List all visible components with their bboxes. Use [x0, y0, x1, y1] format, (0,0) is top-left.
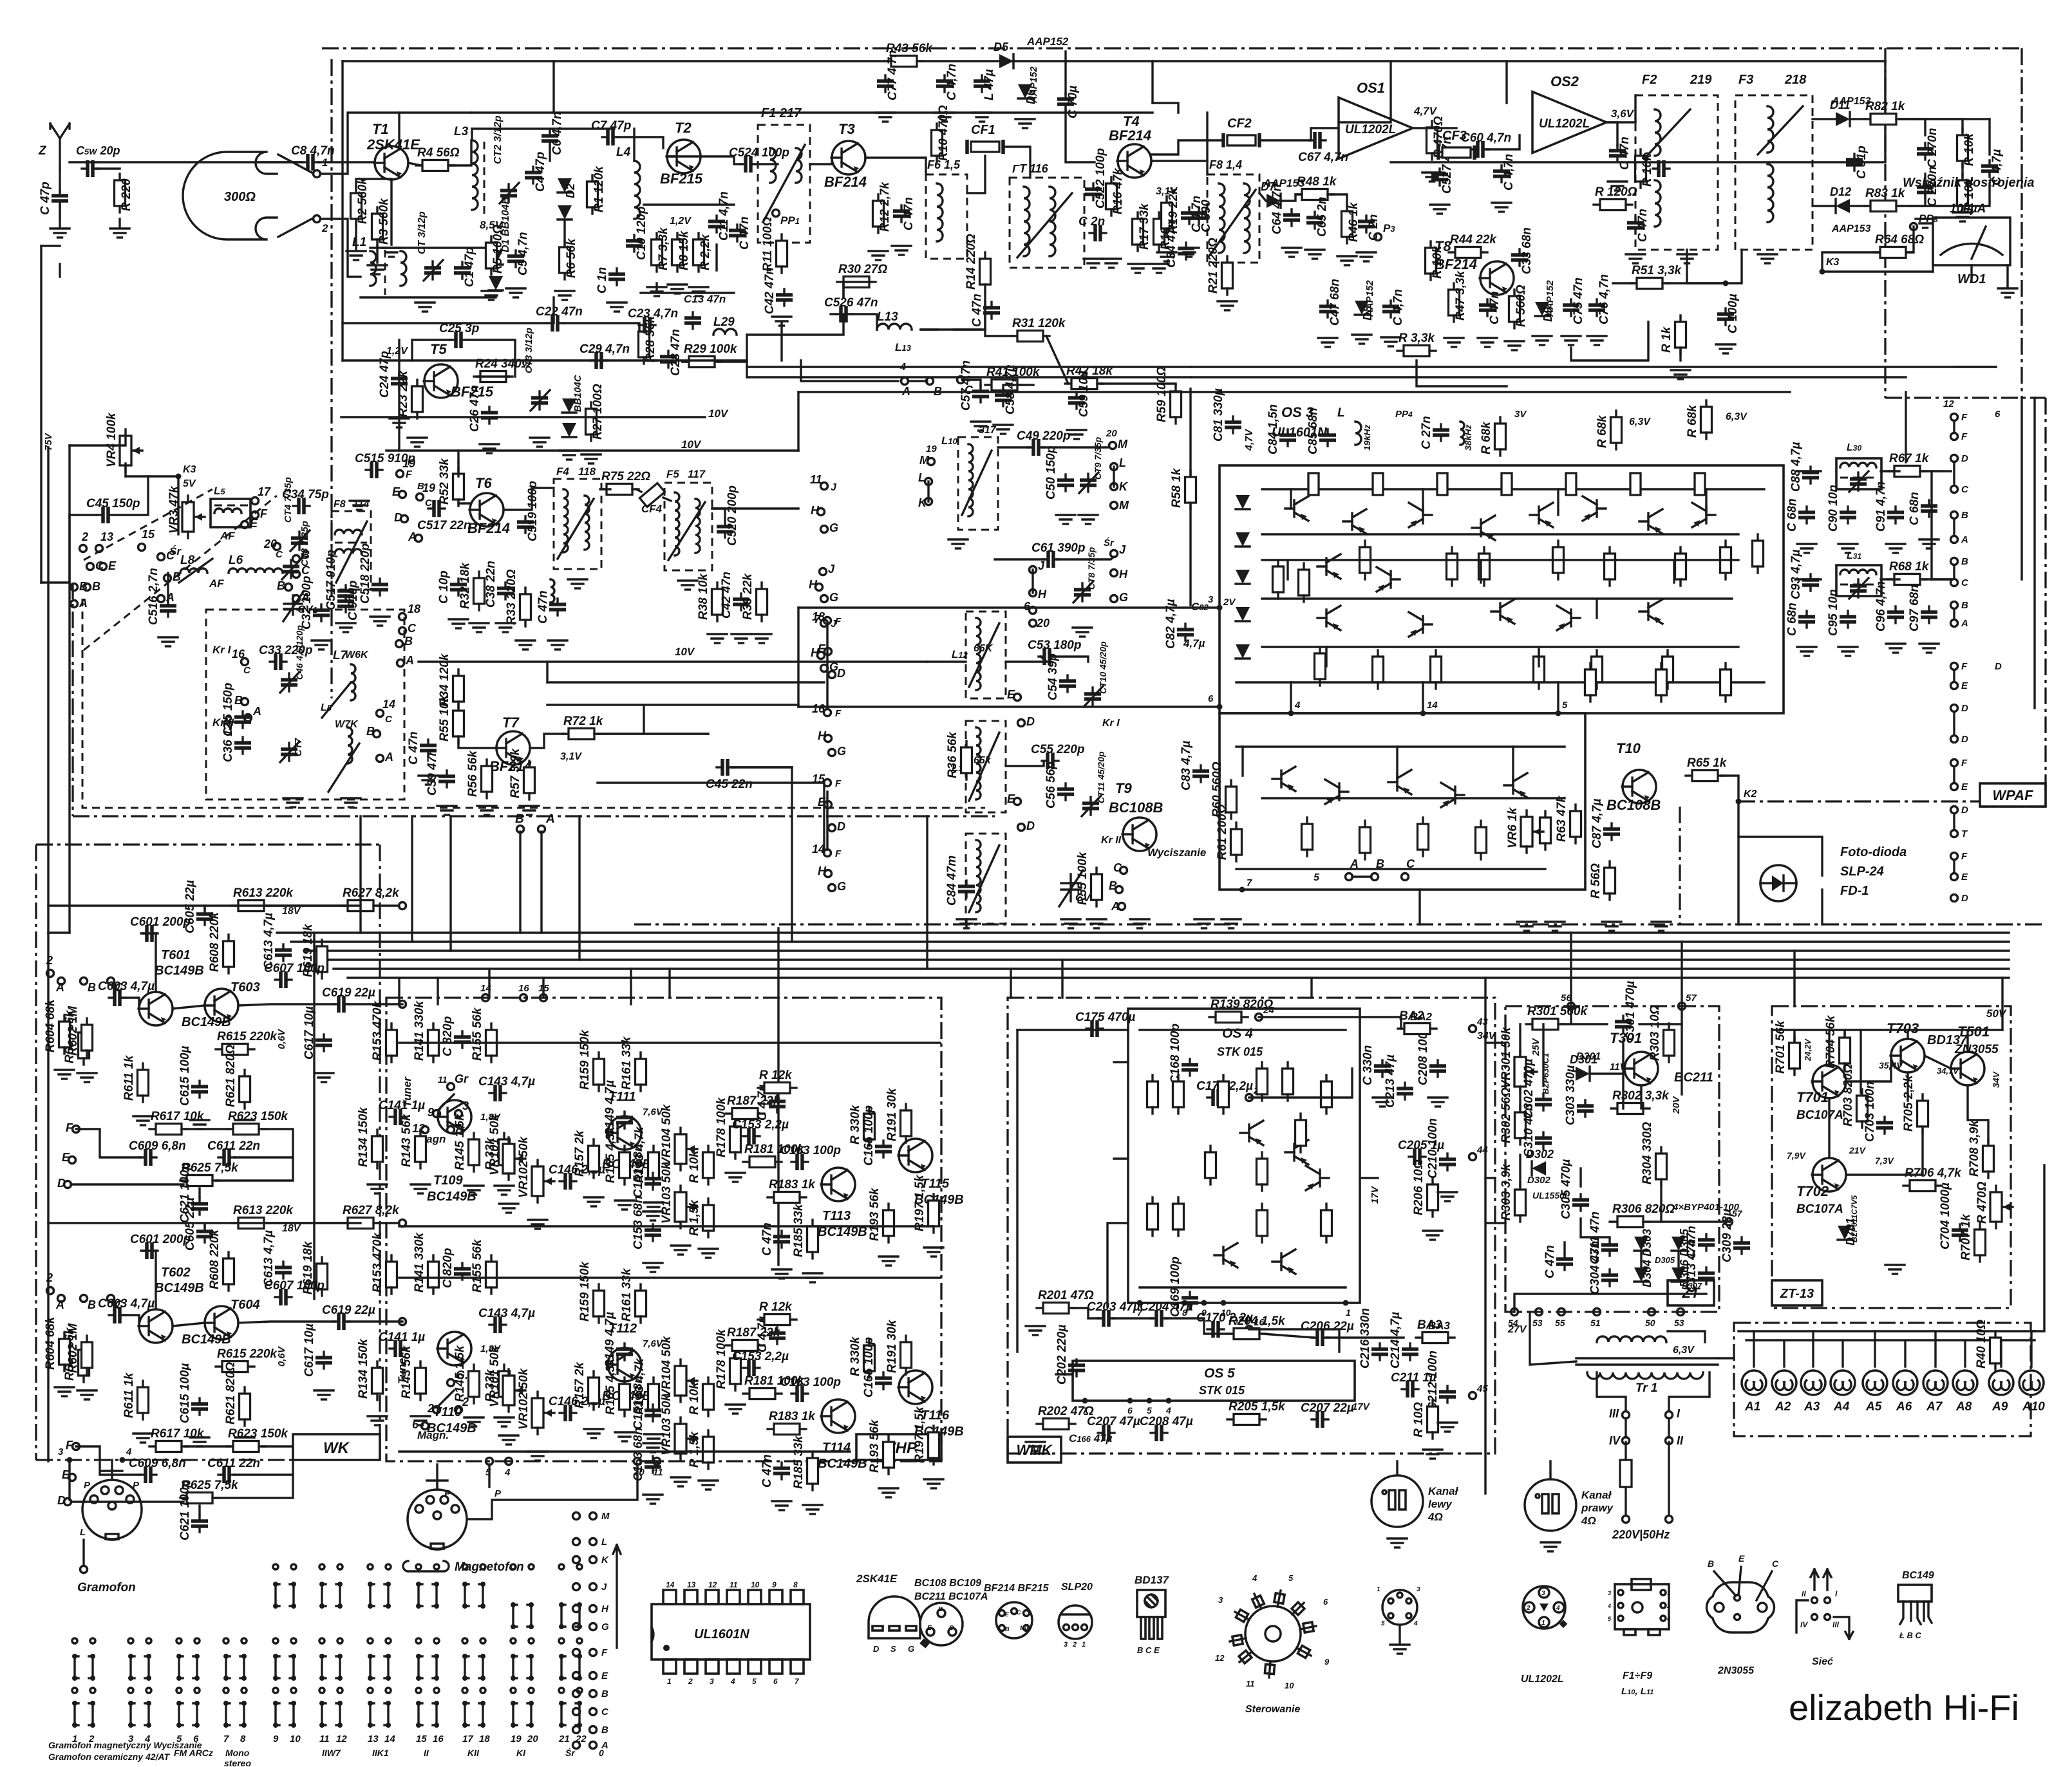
transistor T5	[424, 364, 458, 398]
jack B	[517, 826, 524, 833]
wire 6,3V	[1668, 1331, 1705, 1342]
wire drop	[542, 978, 544, 998]
svg-text:D: D	[837, 667, 845, 680]
wire	[173, 1005, 205, 1009]
capacitor C515	[366, 462, 382, 478]
lamp wire	[1783, 1340, 1785, 1367]
lamp bus 2	[1746, 1339, 2035, 1341]
wire	[1549, 1461, 1551, 1479]
svg-text:R706 4,7k: R706 4,7k	[1905, 1166, 1962, 1180]
wire	[97, 167, 120, 169]
svg-text:J: J	[831, 482, 837, 493]
wire	[1966, 1030, 1968, 1052]
wire	[1326, 1336, 1404, 1338]
fuse	[1620, 1460, 1632, 1487]
svg-text:R145 1,5k: R145 1,5k	[453, 1113, 467, 1170]
wire	[1519, 1155, 1521, 1186]
jack E	[241, 521, 249, 528]
svg-text:3: 3	[1608, 1590, 1611, 1596]
capacitor C213	[1397, 1083, 1413, 1099]
ground	[482, 291, 501, 300]
svg-text:C: C	[1113, 861, 1122, 874]
ground	[336, 623, 355, 632]
WK rail 1	[48, 904, 361, 906]
svg-text:R159 150k: R159 150k	[578, 1261, 592, 1322]
DIN connector	[408, 1481, 467, 1549]
wire link	[547, 681, 824, 683]
svg-text:5: 5	[1288, 1573, 1294, 1583]
svg-text:R604 68k: R604 68k	[44, 998, 57, 1052]
svg-text:ZT-13: ZT-13	[1780, 1287, 1814, 1301]
svg-text:G: G	[837, 880, 846, 893]
wire	[458, 740, 494, 748]
resistor	[1675, 547, 1686, 586]
dipole terminals	[278, 154, 312, 237]
svg-text:R621 820Ω: R621 820Ω	[224, 1362, 238, 1425]
svg-text:D: D	[394, 511, 402, 524]
svg-text:R38 10k: R38 10k	[697, 573, 710, 620]
svg-text:3: 3	[1417, 1586, 1420, 1593]
resistor R193	[883, 1204, 894, 1242]
svg-text:D2: D2	[564, 183, 577, 198]
ground	[516, 640, 535, 650]
svg-text:A: A	[55, 981, 64, 994]
capacitor C45	[97, 507, 114, 523]
transistor (IC internal)	[1214, 1243, 1238, 1267]
wire	[1057, 557, 1114, 559]
capacitor C151	[645, 1405, 661, 1421]
inductor	[968, 444, 973, 516]
svg-text:BC211 BC107A: BC211 BC107A	[914, 1591, 988, 1602]
resistor R	[1427, 121, 1438, 160]
node 53	[1677, 1309, 1684, 1316]
wire	[967, 156, 985, 193]
svg-text:T703: T703	[1887, 1020, 1919, 1036]
resistor R704	[1840, 1031, 1851, 1070]
package F1-F9 filter can	[1615, 1579, 1669, 1635]
wire to K3	[1822, 252, 1879, 272]
svg-text:43: 43	[1476, 1016, 1488, 1027]
wire	[155, 933, 156, 991]
svg-text:AF: AF	[209, 577, 224, 590]
svg-text:12: 12	[336, 1734, 347, 1744]
wire	[1899, 119, 1963, 132]
ground	[1886, 544, 1905, 553]
resistor R615	[216, 1044, 254, 1055]
capacitor C216	[1371, 1343, 1388, 1360]
tape symbol	[403, 1561, 449, 1571]
ground	[1067, 430, 1086, 439]
capacitor C23	[639, 317, 655, 333]
svg-text:R145 1,5k: R145 1,5k	[453, 1345, 467, 1402]
ground	[530, 438, 549, 447]
pin 1	[1343, 1300, 1349, 1306]
filter F6 115	[926, 174, 967, 259]
resistor R187	[726, 1108, 764, 1119]
ground	[924, 1479, 943, 1488]
svg-text:C22 47n: C22 47n	[536, 305, 583, 319]
svg-text:C61 390p: C61 390p	[1031, 541, 1085, 555]
jack J	[820, 568, 827, 575]
wire	[552, 297, 554, 323]
capacitor C617	[316, 1352, 332, 1369]
capacitor C153	[645, 1456, 661, 1473]
svg-text:100µA: 100µA	[1950, 202, 1986, 216]
node 55	[1558, 1309, 1565, 1316]
resistor (IC internal)	[1695, 473, 1705, 495]
svg-text:R602 1M: R602 1M	[66, 1323, 80, 1373]
capacitor C304	[1601, 1269, 1618, 1286]
wire ladder link	[826, 624, 828, 708]
svg-text:T113: T113	[822, 1209, 851, 1223]
ground	[643, 1263, 663, 1272]
svg-text:R4 56Ω: R4 56Ω	[417, 146, 460, 160]
capacitor C	[1921, 500, 1937, 517]
ground	[1444, 338, 1464, 347]
svg-text:4: 4	[1252, 1573, 1257, 1583]
pin	[1137, 1300, 1143, 1306]
wire	[115, 476, 148, 515]
wire	[1606, 122, 1617, 145]
svg-text:K3: K3	[1826, 257, 1840, 268]
svg-text:34V: 34V	[1477, 1031, 1496, 1042]
jack A	[1346, 874, 1353, 881]
svg-text:VR102 50k: VR102 50k	[517, 1136, 531, 1198]
svg-text:17V: 17V	[1352, 1401, 1371, 1412]
svg-text:C621 100p: C621 100p	[178, 1480, 192, 1540]
svg-text:C81 330µ: C81 330µ	[1212, 388, 1225, 442]
svg-text:Foto-dioda: Foto-dioda	[1840, 845, 1907, 859]
svg-text:R44 22k: R44 22k	[1450, 233, 1497, 247]
contact dots	[416, 1638, 439, 1643]
svg-text:L31: L31	[1847, 550, 1861, 561]
svg-text:T8: T8	[1435, 238, 1451, 254]
ground	[1838, 647, 1858, 656]
svg-text:BC149B: BC149B	[155, 1281, 204, 1295]
svg-text:R178 100k: R178 100k	[715, 1329, 728, 1389]
capacitor C	[337, 595, 354, 612]
svg-text:F: F	[260, 507, 268, 520]
wire	[712, 509, 725, 520]
resistor R18	[1154, 212, 1165, 251]
svg-text:51: 51	[1590, 1318, 1601, 1328]
wire	[998, 446, 1030, 448]
jack	[1951, 663, 1958, 670]
package BD137	[1137, 1590, 1165, 1639]
svg-text:R303 3,9k: R303 3,9k	[1500, 1163, 1513, 1220]
svg-text:S: S	[890, 1644, 896, 1654]
wire	[1064, 51, 1066, 61]
svg-text:R 120Ω: R 120Ω	[1595, 185, 1637, 199]
svg-text:5: 5	[1147, 1405, 1152, 1416]
ground	[528, 1220, 547, 1229]
jack	[1951, 512, 1958, 519]
wire	[1571, 322, 1648, 360]
svg-text:CF2: CF2	[1227, 117, 1252, 131]
resistor R303	[1515, 1183, 1526, 1222]
svg-text:B: B	[88, 1298, 96, 1311]
pin	[1147, 1398, 1153, 1404]
svg-text:C526 47n: C526 47n	[824, 296, 878, 310]
svg-text:AAP153: AAP153	[1831, 223, 1871, 234]
svg-text:R611 1k: R611 1k	[122, 1372, 136, 1418]
svg-text:C141 1µ: C141 1µ	[379, 1331, 425, 1344]
resistor	[1147, 1075, 1158, 1114]
wire	[1828, 1098, 1830, 1158]
None	[573, 1708, 580, 1716]
capacitor C520	[717, 521, 733, 538]
svg-text:R11 100Ω: R11 100Ω	[761, 217, 775, 272]
filter F2 219	[1635, 95, 1718, 250]
jack 2	[47, 970, 54, 977]
svg-text:C11 4,7n: C11 4,7n	[717, 191, 731, 241]
package BC108 bottom view	[919, 1603, 963, 1649]
resistor R302	[1611, 1103, 1650, 1114]
transistor (IC internal)	[1325, 780, 1348, 804]
jack A	[397, 660, 404, 667]
ground	[494, 1417, 514, 1426]
wire F2-F3 link	[1687, 250, 1742, 283]
None	[573, 1557, 580, 1564]
wire	[1590, 1072, 1625, 1074]
svg-text:A: A	[55, 1298, 64, 1311]
svg-text:E: E	[62, 1151, 70, 1164]
svg-text:C45 150p: C45 150p	[86, 497, 140, 510]
capacitor C	[1358, 216, 1375, 232]
svg-text:C 27n: C 27n	[1420, 416, 1433, 449]
svg-text:18V: 18V	[282, 1223, 301, 1234]
jack B	[241, 698, 249, 706]
capacitor C5	[507, 250, 524, 267]
svg-text:elizabeth Hi-Fi: elizabeth Hi-Fi	[1789, 1687, 2019, 1728]
resistor R206	[1427, 1178, 1438, 1217]
diode D2	[558, 178, 572, 192]
resistor R191	[901, 1336, 912, 1374]
svg-text:F: F	[1961, 851, 1968, 862]
jack A	[1118, 903, 1125, 910]
wire link	[547, 704, 798, 706]
svg-text:R159 150k: R159 150k	[578, 1029, 592, 1090]
wire	[185, 1445, 230, 1447]
resistor R	[1957, 174, 1968, 212]
svg-text:11V: 11V	[1610, 1061, 1628, 1072]
wire	[831, 313, 837, 315]
capacitor C58	[995, 389, 1012, 406]
wire top rail 2	[471, 111, 1153, 113]
svg-text:C175 470µ: C175 470µ	[1075, 1011, 1135, 1024]
inductor L6	[229, 568, 283, 573]
svg-text:5: 5	[1381, 1620, 1385, 1627]
svg-text:UL1601N: UL1601N	[694, 1627, 749, 1641]
jack B	[80, 978, 88, 985]
svg-text:57: 57	[1732, 1208, 1743, 1219]
node K3	[1820, 269, 1825, 275]
svg-text:C 68n: C 68n	[1785, 603, 1799, 636]
ground	[615, 1201, 634, 1210]
svg-text:14: 14	[384, 1734, 395, 1744]
None	[590, 1557, 597, 1564]
resistor R187	[726, 1340, 764, 1351]
resistor R304	[1656, 1147, 1667, 1186]
wire	[1905, 392, 1907, 462]
capacitor C45	[717, 759, 733, 776]
capacitor C302	[1535, 1094, 1552, 1110]
ground	[1716, 344, 1735, 353]
svg-text:L5: L5	[214, 485, 225, 497]
potentiometer VR103	[675, 1186, 697, 1228]
wire	[1413, 127, 1456, 129]
svg-text:R 10k: R 10k	[688, 1150, 701, 1183]
wire	[377, 1222, 399, 1224]
capacitor C82	[1177, 624, 1194, 640]
diode	[562, 423, 576, 437]
svg-text:R8 15k: R8 15k	[677, 230, 691, 270]
capacitor C212	[1439, 1386, 1456, 1403]
wire pin5	[1056, 1373, 1073, 1375]
svg-text:C50 150p: C50 150p	[1044, 446, 1058, 500]
node 50	[1648, 1309, 1655, 1316]
svg-text:11: 11	[810, 473, 822, 486]
ground	[1428, 1098, 1447, 1107]
svg-text:C: C	[385, 714, 393, 725]
switch contact pair	[462, 1582, 485, 1609]
IC OS4 outline	[1128, 1009, 1360, 1303]
switch contact pair	[416, 1582, 439, 1609]
svg-text:R65 1k: R65 1k	[1687, 756, 1728, 770]
svg-text:C617 10µ: C617 10µ	[303, 1323, 316, 1377]
svg-text:3,6V: 3,6V	[1611, 108, 1635, 120]
jack	[1951, 895, 1958, 902]
resistor R	[1701, 400, 1712, 439]
inductor	[585, 496, 589, 550]
resistor (IC internal)	[1630, 473, 1641, 495]
ground	[581, 454, 601, 463]
ground	[110, 229, 129, 238]
wire	[563, 220, 565, 245]
capacitor C163	[791, 1154, 808, 1170]
bus wire	[348, 977, 2009, 978]
svg-text:2SK41E: 2SK41E	[856, 1573, 898, 1585]
svg-text:G: G	[1119, 591, 1128, 604]
svg-text:L3: L3	[454, 125, 469, 138]
ground	[1084, 259, 1103, 268]
resistor R	[499, 1365, 510, 1403]
capacitor C204	[1151, 1310, 1167, 1327]
svg-text:B: B	[277, 579, 285, 592]
wire	[1639, 1023, 1682, 1025]
capacitor C	[1433, 424, 1449, 441]
ground	[1626, 254, 1645, 263]
ground	[699, 1481, 718, 1490]
svg-text:3: 3	[58, 1446, 64, 1457]
ground	[643, 1495, 663, 1504]
None	[590, 1605, 597, 1613]
resistor	[1173, 1197, 1184, 1236]
wire drop	[926, 816, 928, 969]
wire	[1480, 560, 1482, 583]
jack I	[1666, 1412, 1673, 1419]
resistor R707	[1975, 1223, 1986, 1262]
jack	[1951, 433, 1958, 440]
svg-text:R61 200Ω: R61 200Ω	[1216, 804, 1229, 860]
svg-text:R604 68k: R604 68k	[44, 1316, 57, 1370]
svg-text:3: 3	[1064, 1641, 1068, 1649]
wire	[1681, 1024, 1682, 1094]
inductor	[563, 489, 568, 552]
svg-text:Sieć: Sieć	[1812, 1656, 1833, 1667]
wire	[71, 1501, 184, 1502]
antenna	[50, 124, 70, 169]
wire	[1485, 1177, 1495, 1179]
bus wire	[291, 940, 2009, 942]
wire	[1646, 1220, 1729, 1222]
rail 50V	[1772, 1029, 2002, 1031]
svg-text:C619 22µ: C619 22µ	[322, 1304, 375, 1317]
capacitor C	[450, 579, 467, 595]
svg-text:3: 3	[710, 1677, 714, 1686]
svg-text:C84 47m: C84 47m	[945, 855, 959, 906]
jack	[1951, 736, 1958, 743]
switch arm	[438, 1094, 454, 1110]
svg-text:A: A	[252, 705, 261, 718]
svg-text:D: D	[1995, 661, 2002, 672]
svg-text:C 2n: C 2n	[1078, 215, 1105, 229]
inductor	[1840, 463, 1876, 467]
ground	[1492, 203, 1511, 212]
svg-text:4: 4	[126, 1446, 132, 1457]
transistor	[204, 1306, 238, 1340]
svg-text:C75 47n: C75 47n	[1572, 277, 1585, 324]
resistor R	[758, 1314, 796, 1325]
ground	[133, 1434, 153, 1443]
filter F5 117	[664, 483, 712, 570]
contact dots	[319, 1564, 343, 1569]
svg-text:W6K: W6K	[345, 650, 369, 660]
wire	[865, 158, 926, 174]
svg-text:R165 4,3k: R165 4,3k	[604, 1358, 617, 1415]
wire	[1006, 761, 1044, 766]
jack	[1951, 783, 1958, 790]
svg-text:R24 340Ω: R24 340Ω	[475, 357, 531, 371]
contact dots	[273, 1638, 296, 1643]
svg-text:10: 10	[751, 1580, 760, 1589]
svg-text:C10 120p: C10 120p	[635, 207, 648, 260]
jack 7	[447, 1127, 455, 1134]
wire	[663, 498, 671, 501]
transistor (IC internal)	[1343, 509, 1366, 534]
capacitor C93	[1802, 574, 1819, 591]
svg-text:C168 100p: C168 100p	[1169, 1024, 1182, 1084]
svg-text:12: 12	[1943, 398, 1954, 409]
ground	[924, 1248, 943, 1257]
ground	[1478, 338, 1497, 347]
inductor	[1840, 570, 1876, 574]
resistor R10	[932, 124, 943, 162]
inductor	[335, 549, 362, 554]
svg-text:Kanał: Kanał	[1428, 1485, 1459, 1497]
OS3 internal rail	[1262, 559, 1738, 561]
svg-text:Ł B C: Ł B C	[1899, 1631, 1922, 1640]
svg-text:A1: A1	[1744, 1400, 1760, 1414]
jack	[1951, 414, 1958, 421]
pin	[1182, 1300, 1188, 1306]
None	[573, 1742, 580, 1749]
svg-text:18V: 18V	[282, 906, 301, 917]
svg-text:G: G	[829, 521, 838, 534]
wire	[457, 451, 459, 462]
wire	[921, 291, 985, 330]
package 2SK41E	[869, 1596, 920, 1638]
